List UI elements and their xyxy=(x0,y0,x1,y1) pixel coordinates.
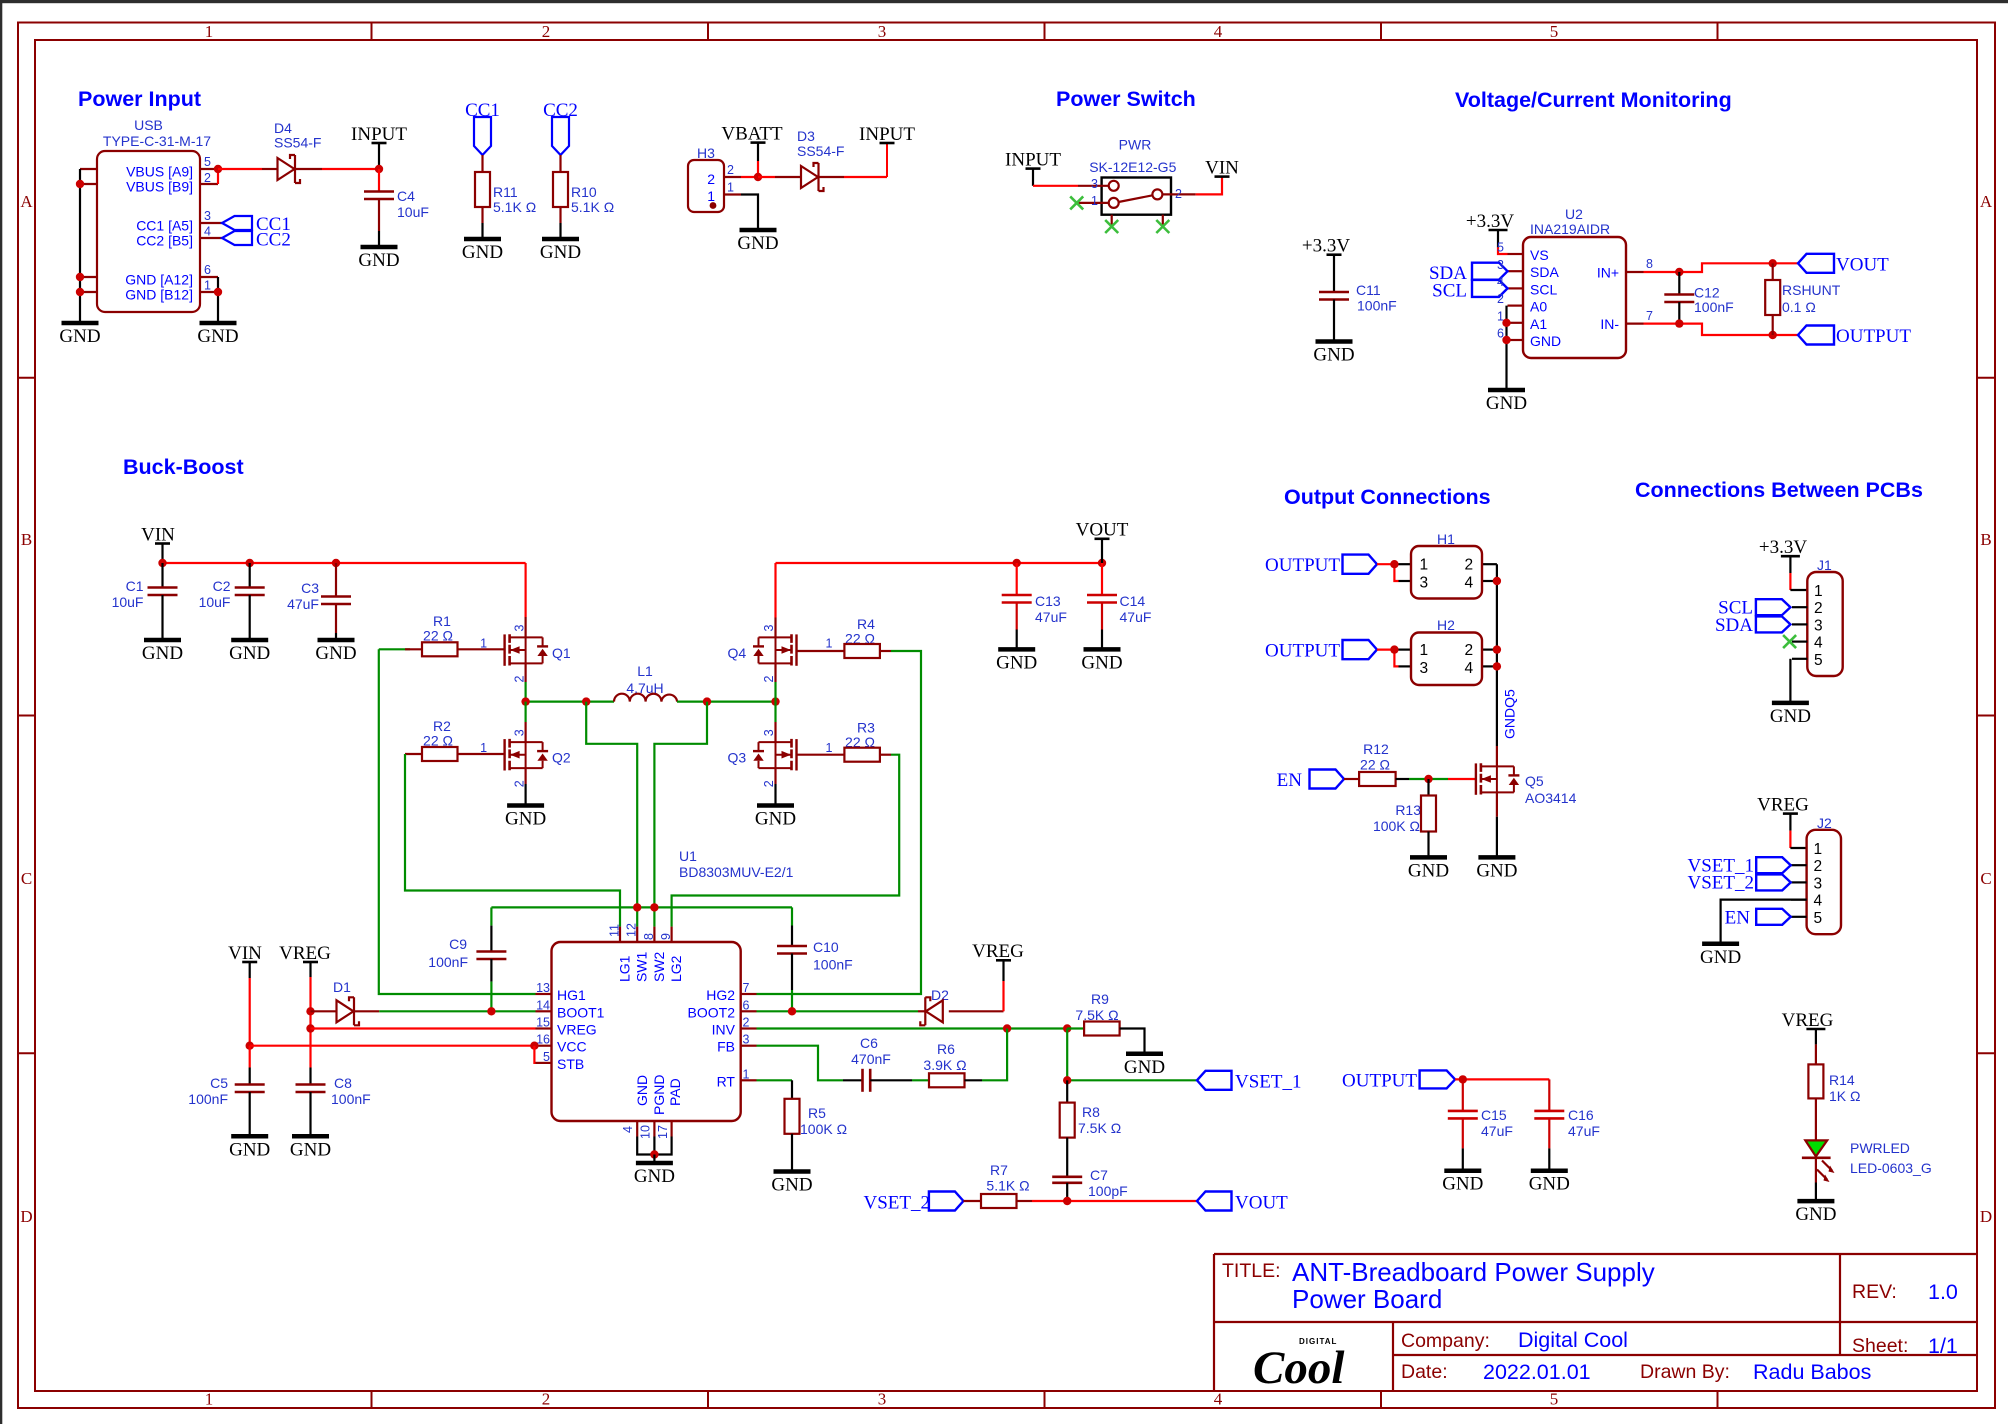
junction dots IN- net xyxy=(1675,319,1777,339)
wire: IN- to OUTPUT net xyxy=(1644,324,1799,335)
svg-text:4: 4 xyxy=(1214,22,1223,41)
title block REV xyxy=(1852,1280,1958,1304)
wire: R3 to U1 LG2 xyxy=(672,755,900,927)
title block Date row xyxy=(1401,1360,1871,1384)
connector J1 body xyxy=(1807,572,1842,676)
svg-text:VIN: VIN xyxy=(1205,157,1239,178)
capacitor C13 labels xyxy=(1035,593,1067,625)
svg-text:VBUS [A9]: VBUS [A9] xyxy=(126,164,193,180)
ground GND (C15) xyxy=(1442,1171,1483,1195)
svg-text:C11: C11 xyxy=(1356,282,1381,298)
svg-text:Output Connections: Output Connections xyxy=(1284,485,1491,509)
netport VSET_2 xyxy=(864,1192,964,1214)
svg-text:VIN: VIN xyxy=(141,524,175,545)
ground GND (C1) xyxy=(142,640,183,664)
svg-text:1: 1 xyxy=(826,637,833,651)
capacitor C4 10uF xyxy=(364,192,394,232)
svg-text:1: 1 xyxy=(204,279,211,293)
netport OUTPUT (H2) xyxy=(1265,640,1377,661)
J2 pin stubs xyxy=(1791,865,1807,917)
svg-text:FB: FB xyxy=(717,1039,735,1055)
wire: VOUT bus to Q4 drain xyxy=(774,563,776,618)
svg-text:Buck-Boost: Buck-Boost xyxy=(123,455,244,479)
svg-text:47uF: 47uF xyxy=(1568,1123,1600,1139)
svg-text:IN+: IN+ xyxy=(1597,265,1619,281)
ground GND (Q2) xyxy=(505,806,546,830)
svg-text:BOOT2: BOOT2 xyxy=(688,1004,736,1020)
connector H1 body xyxy=(1411,546,1482,599)
resistor R2 labels xyxy=(423,718,453,749)
inductor L1 4.7uH xyxy=(614,694,677,702)
netport EN (J2) xyxy=(1725,907,1791,928)
svg-text:3: 3 xyxy=(512,625,526,632)
svg-text:GND: GND xyxy=(505,809,546,830)
capacitor C9 100nF xyxy=(476,907,506,1011)
svg-text:C: C xyxy=(21,869,32,888)
netport VOUT (feedback) xyxy=(1197,1192,1288,1214)
svg-text:3.9K Ω: 3.9K Ω xyxy=(923,1057,966,1073)
svg-text:100nF: 100nF xyxy=(331,1091,371,1107)
svg-text:DIGITAL: DIGITAL xyxy=(1299,1337,1337,1346)
svg-text:15: 15 xyxy=(536,1016,550,1030)
svg-text:4.7uH: 4.7uH xyxy=(626,680,663,696)
svg-text:VSET_2: VSET_2 xyxy=(1688,873,1755,894)
wire: GNDQ5 bus xyxy=(1496,564,1498,746)
svg-text:SDA: SDA xyxy=(1530,264,1559,280)
svg-text:SCL: SCL xyxy=(1530,281,1557,297)
svg-text:3: 3 xyxy=(512,729,526,736)
capacitor C10 100nF xyxy=(777,907,807,1011)
wire: VSET_1 branch xyxy=(1067,1029,1197,1081)
svg-text:2: 2 xyxy=(512,676,526,683)
svg-text:1: 1 xyxy=(480,637,487,651)
USB pin names xyxy=(125,164,193,303)
resistor R12 labels xyxy=(1360,741,1390,773)
svg-text:GND: GND xyxy=(771,1175,812,1196)
U1 bottom pin names xyxy=(634,1075,683,1115)
wire: VCC line to U1 pin16 xyxy=(250,1045,536,1047)
svg-text:C1: C1 xyxy=(126,578,144,594)
wire: CC1 flag to R11 xyxy=(481,155,483,172)
svg-text:SW2: SW2 xyxy=(651,951,667,982)
svg-text:VBUS [B9]: VBUS [B9] xyxy=(126,179,193,195)
svg-text:INPUT: INPUT xyxy=(859,124,915,145)
svg-text:2: 2 xyxy=(743,1016,750,1030)
capacitor C5 100nF xyxy=(235,1046,265,1137)
svg-text:Q5: Q5 xyxy=(1525,773,1544,789)
wire: USB pin1 to GND xyxy=(217,292,219,323)
resistor R11 labels xyxy=(493,184,536,215)
svg-text:4: 4 xyxy=(1214,1390,1223,1409)
svg-text:C13: C13 xyxy=(1035,593,1061,609)
transistor Q2 xyxy=(505,702,548,784)
junction dots bootstrap bus xyxy=(633,903,659,911)
svg-text:8: 8 xyxy=(642,933,656,940)
resistor R8 labels xyxy=(1078,1104,1121,1136)
svg-text:+3.3V: +3.3V xyxy=(1759,537,1807,558)
svg-text:100K Ω: 100K Ω xyxy=(800,1121,847,1137)
svg-text:3: 3 xyxy=(1420,575,1429,592)
svg-text:STB: STB xyxy=(557,1056,584,1072)
netport CC2 (pull-down) xyxy=(543,100,578,155)
svg-text:7.5K Ω: 7.5K Ω xyxy=(1078,1120,1121,1136)
svg-text:D3: D3 xyxy=(797,128,815,144)
svg-text:GND: GND xyxy=(315,643,356,664)
USB right pin stubs xyxy=(200,169,222,292)
svg-text:INA219AIDR: INA219AIDR xyxy=(1530,221,1610,237)
svg-text:10uF: 10uF xyxy=(397,204,429,220)
net flag INPUT (power input) xyxy=(351,124,407,169)
ground GND (C13) xyxy=(996,649,1037,673)
capacitor C6 labels xyxy=(851,1035,891,1067)
svg-text:USB: USB xyxy=(134,117,163,133)
svg-text:1: 1 xyxy=(727,181,734,195)
svg-text:100K Ω: 100K Ω xyxy=(1373,818,1420,834)
U1 top pin stubs xyxy=(620,927,672,942)
USB pin numbers xyxy=(204,155,211,293)
capacitor C11 labels xyxy=(1356,282,1397,314)
svg-text:GND: GND xyxy=(540,242,581,263)
power flag +3.3V (U2 VS) xyxy=(1466,211,1514,254)
svg-text:CC2: CC2 xyxy=(256,230,291,251)
svg-text:D2: D2 xyxy=(931,987,949,1003)
svg-text:RSHUNT: RSHUNT xyxy=(1782,282,1841,298)
ground GND (R5) xyxy=(771,1172,812,1196)
net flag VIN (VCC rail) xyxy=(228,943,262,1046)
ground GND (C3) xyxy=(315,640,356,664)
svg-text:Q2: Q2 xyxy=(552,750,571,766)
svg-text:H2: H2 xyxy=(1437,617,1455,633)
power flag +3.3V (C11) xyxy=(1302,236,1350,293)
svg-text:OUTPUT: OUTPUT xyxy=(1265,555,1340,576)
svg-text:47uF: 47uF xyxy=(1120,609,1152,625)
title block Sheet xyxy=(1852,1334,1958,1358)
svg-text:VOUT: VOUT xyxy=(1836,255,1889,276)
Q2 pin numbers 3 2 xyxy=(512,729,526,787)
svg-text:1: 1 xyxy=(1814,583,1823,600)
junction dots VIN bus xyxy=(158,559,340,567)
resistor R5 100K xyxy=(785,1080,800,1171)
netport VSET_1 xyxy=(1197,1071,1302,1093)
H2 pin numbers xyxy=(1420,642,1474,677)
capacitor C3 labels xyxy=(287,580,319,612)
junction dot VCC rail xyxy=(246,1042,254,1050)
svg-text:1: 1 xyxy=(1814,841,1823,858)
svg-text:4: 4 xyxy=(621,1126,635,1133)
wire: OUTPUT to C15 C16 xyxy=(1455,1078,1549,1080)
ground GND (R9) xyxy=(1124,1054,1165,1078)
svg-text:SK-12E12-G5: SK-12E12-G5 xyxy=(1089,159,1176,175)
junction dot R13 node xyxy=(1424,775,1432,783)
svg-text:6: 6 xyxy=(743,998,750,1012)
ground GND (Q5) xyxy=(1476,857,1517,881)
svg-text:17: 17 xyxy=(656,1125,670,1139)
svg-text:A1: A1 xyxy=(1530,316,1547,332)
net flag VIN (buck input) xyxy=(141,524,175,563)
title block TITLE text xyxy=(1222,1260,1281,1282)
junction dots INV line xyxy=(1003,1024,1072,1032)
resistor R13 100K xyxy=(1421,779,1436,857)
wire: R14 to LED xyxy=(1815,1098,1817,1140)
wire: OUTPUT to H1 pin1 xyxy=(1377,564,1399,581)
capacitor C13 47uF xyxy=(1002,563,1032,649)
resistor R4 labels xyxy=(845,616,875,647)
svg-text:INV: INV xyxy=(712,1022,736,1038)
J1 pin stubs xyxy=(1792,607,1807,659)
resistor RSHUNT 0.1ohm xyxy=(1765,263,1780,335)
ground GND (C5) xyxy=(229,1136,270,1160)
transistor Q3 label xyxy=(728,750,747,766)
junction dot VBATT xyxy=(754,173,762,181)
svg-text:RT: RT xyxy=(717,1073,736,1089)
capacitor C4 labels xyxy=(397,188,429,220)
svg-text:2: 2 xyxy=(727,163,734,177)
wire: RT to R5 xyxy=(757,1079,793,1081)
ground GND (USB pin1) xyxy=(197,323,238,347)
net flag VREG (left rail) xyxy=(279,943,331,1068)
U1 top pin names xyxy=(617,951,685,982)
svg-text:C7: C7 xyxy=(1090,1167,1108,1183)
svg-text:BD8303MUV-E2/1: BD8303MUV-E2/1 xyxy=(679,864,794,880)
capacitor C8 100nF xyxy=(296,1068,326,1137)
svg-text:Date:: Date: xyxy=(1401,1361,1448,1383)
svg-text:5.1K Ω: 5.1K Ω xyxy=(986,1178,1029,1194)
svg-text:GND: GND xyxy=(1124,1057,1165,1078)
wire: U2 A0/A1/GND to ground xyxy=(1505,306,1507,390)
net flag VREG (D2) xyxy=(972,941,1024,1011)
svg-text:A0: A0 xyxy=(1530,299,1547,315)
svg-text:1.0: 1.0 xyxy=(1928,1280,1958,1304)
capacitor C7 100pF xyxy=(1052,1177,1082,1201)
svg-text:14: 14 xyxy=(536,998,550,1012)
svg-text:Q1: Q1 xyxy=(552,645,571,661)
power flag +3.3V (J1) xyxy=(1759,537,1807,590)
junction dots VOUT bus xyxy=(1013,559,1107,567)
capacitor C10 labels xyxy=(813,939,853,973)
svg-text:Q3: Q3 xyxy=(728,750,747,766)
resistor RSHUNT labels xyxy=(1782,282,1841,315)
svg-text:GND: GND xyxy=(229,1139,270,1160)
svg-text:GND [B12]: GND [B12] xyxy=(125,287,193,303)
no-connect X switch bottom pins xyxy=(1105,220,1169,233)
wire: switch pin2 to VIN xyxy=(1196,177,1222,195)
svg-text:C3: C3 xyxy=(301,580,319,596)
wire: IN+ to VOUT net xyxy=(1644,263,1799,272)
svg-text:3: 3 xyxy=(204,209,211,223)
junction dots VREG rail xyxy=(306,1007,314,1033)
wire: D1 cathode to BOOT1 xyxy=(379,1010,535,1012)
no-connect X J1 pin4 xyxy=(1783,635,1796,648)
resistor R2 22ohm xyxy=(405,747,505,761)
wire: R7 to VOUT port xyxy=(1032,1200,1197,1202)
svg-text:INPUT: INPUT xyxy=(351,124,407,145)
capacitor C16 47uF xyxy=(1534,1079,1564,1170)
svg-text:+3.3V: +3.3V xyxy=(1466,211,1514,232)
svg-text:GND: GND xyxy=(290,1139,331,1160)
section title: Voltage/Current Monitoring xyxy=(1455,88,1732,112)
svg-text:C10: C10 xyxy=(813,939,839,955)
svg-text:2: 2 xyxy=(707,171,715,187)
svg-text:6: 6 xyxy=(204,263,211,277)
svg-text:1: 1 xyxy=(743,1067,750,1081)
svg-text:PAD: PAD xyxy=(667,1078,683,1106)
junction dot U1 GND xyxy=(650,1150,658,1158)
svg-text:GND: GND xyxy=(634,1166,675,1187)
capacitor C11 100nF xyxy=(1319,292,1349,300)
svg-text:VREG: VREG xyxy=(279,943,331,964)
svg-text:R14: R14 xyxy=(1829,1072,1855,1088)
svg-text:10uF: 10uF xyxy=(199,594,231,610)
capacitor C2 labels xyxy=(199,578,231,610)
wire: U1 GND stem xyxy=(653,1155,655,1164)
resistor R7 labels xyxy=(986,1162,1029,1194)
svg-text:VREG: VREG xyxy=(1782,1010,1834,1031)
capacitor C1 10uF xyxy=(148,563,178,640)
diode D1 (VREG to BOOT1) xyxy=(311,997,380,1025)
wire: C11 to GND xyxy=(1333,300,1335,342)
wire: D3 cathode to INPUT flag xyxy=(844,143,887,177)
svg-text:GND [A12]: GND [A12] xyxy=(125,272,193,288)
svg-text:3: 3 xyxy=(1497,258,1504,272)
svg-text:GND: GND xyxy=(1770,706,1811,727)
resistor R9 labels xyxy=(1075,991,1118,1023)
svg-text:GND: GND xyxy=(358,250,399,271)
svg-text:EN: EN xyxy=(1725,907,1751,928)
wire: R2 to U1 LG1 xyxy=(405,754,620,927)
svg-text:4: 4 xyxy=(1465,660,1474,677)
svg-text:R5: R5 xyxy=(808,1105,826,1121)
svg-text:AO3414: AO3414 xyxy=(1525,790,1577,806)
LED PWRLED labels xyxy=(1850,1140,1932,1176)
netport OUTPUT (monitor) xyxy=(1798,326,1911,348)
svg-text:VREG: VREG xyxy=(557,1022,597,1038)
capacitor C12 100nF xyxy=(1664,272,1694,324)
svg-text:C14: C14 xyxy=(1120,593,1146,609)
svg-text:HG1: HG1 xyxy=(557,987,586,1003)
junction dots on USB left wire xyxy=(76,180,84,296)
junction dot OUTPUT H1 xyxy=(1390,560,1398,568)
resistor R11 5.1K xyxy=(475,172,490,223)
svg-text:5.1K Ω: 5.1K Ω xyxy=(571,199,614,215)
capacitor C14 47uF xyxy=(1087,563,1117,649)
svg-text:CC1 [A5]: CC1 [A5] xyxy=(136,218,193,234)
svg-text:100pF: 100pF xyxy=(1088,1183,1128,1199)
svg-text:1: 1 xyxy=(205,22,214,41)
U2 pin numbers xyxy=(1497,241,1653,341)
capacitor C1 labels xyxy=(112,578,144,610)
svg-text:GND: GND xyxy=(737,233,778,254)
wire: H3 pin2 to VBATT node xyxy=(741,176,758,178)
svg-text:2022.01.01: 2022.01.01 xyxy=(1483,1360,1591,1384)
svg-text:2: 2 xyxy=(1814,858,1823,875)
resistor R3 labels xyxy=(845,720,875,750)
netport CC1 (USB pin3) xyxy=(222,214,291,235)
svg-text:7: 7 xyxy=(743,981,750,995)
wire: Q3 source to GND xyxy=(774,784,776,806)
ground GND (C11) xyxy=(1313,342,1354,366)
svg-text:3: 3 xyxy=(1420,660,1429,677)
resistor R4 22ohm xyxy=(797,644,891,658)
svg-text:VBATT: VBATT xyxy=(721,123,783,144)
svg-text:D1: D1 xyxy=(333,979,351,995)
Q1 gate pin number 1 xyxy=(480,637,487,651)
svg-text:D: D xyxy=(1980,1207,1992,1226)
svg-text:GND: GND xyxy=(1313,345,1354,366)
svg-text:2: 2 xyxy=(512,780,526,787)
section title: Power Switch xyxy=(1056,87,1196,111)
netport SCL xyxy=(1432,280,1507,302)
wire: LED to GND xyxy=(1815,1183,1817,1202)
svg-text:Cool: Cool xyxy=(1253,1342,1344,1394)
ground GND (C4) xyxy=(358,247,399,271)
resistor R10 5.1K xyxy=(553,172,568,223)
svg-text:R13: R13 xyxy=(1395,802,1421,818)
ground GND (LED) xyxy=(1795,1201,1836,1225)
wire: J2 pin4 to GND xyxy=(1721,900,1807,944)
junction dots GNDQ5 bus xyxy=(1493,577,1501,671)
wire: VBUS pin2 jog xyxy=(217,169,219,184)
wire: R10 to GND xyxy=(559,223,561,239)
Q4 gate pin number 1 xyxy=(826,637,833,651)
svg-text:VIN: VIN xyxy=(228,943,262,964)
junction dot C15 xyxy=(1459,1075,1467,1083)
ground GND (C8) xyxy=(290,1136,331,1160)
svg-text:GND: GND xyxy=(1700,947,1741,968)
svg-text:C5: C5 xyxy=(210,1075,228,1091)
net flag VIN (switch) xyxy=(1205,157,1239,178)
svg-text:IN-: IN- xyxy=(1600,316,1619,332)
connector H2 label xyxy=(1437,617,1455,633)
wire: D4 cathode to INPUT node xyxy=(322,168,379,170)
svg-text:B: B xyxy=(1980,530,1991,549)
svg-text:C16: C16 xyxy=(1568,1107,1594,1123)
net flag VREG (LED) xyxy=(1782,1010,1834,1065)
section title: Power Input xyxy=(78,87,201,111)
svg-text:GND: GND xyxy=(229,643,270,664)
J2 pin numbers xyxy=(1814,841,1823,927)
capacitor C16 labels xyxy=(1568,1107,1600,1139)
wire: CC2 flag to R10 xyxy=(559,155,561,172)
U2 right pin stubs xyxy=(1626,272,1644,324)
Q2 gate pin number 1 xyxy=(480,741,487,755)
svg-text:U1: U1 xyxy=(679,848,697,864)
U1 left pin names xyxy=(557,987,605,1072)
Q1 pin numbers 3 2 xyxy=(512,625,526,683)
svg-text:2: 2 xyxy=(1814,600,1823,617)
netport SCL (J1) xyxy=(1718,598,1790,619)
svg-text:100nF: 100nF xyxy=(428,954,468,970)
capacitor C7 labels xyxy=(1088,1167,1128,1199)
ground GND (C16) xyxy=(1529,1171,1570,1195)
svg-text:1: 1 xyxy=(826,741,833,755)
svg-text:1: 1 xyxy=(1420,642,1429,659)
wire: C6 to R6 xyxy=(912,1079,929,1081)
svg-text:GND: GND xyxy=(1408,860,1449,881)
svg-text:INPUT: INPUT xyxy=(1005,149,1061,170)
svg-text:GND: GND xyxy=(462,242,503,263)
svg-text:100nF: 100nF xyxy=(813,957,853,973)
svg-text:12: 12 xyxy=(625,923,639,937)
wire: VCC to STB pin5 xyxy=(534,1046,535,1063)
wire: GND pin6 jog xyxy=(217,277,219,292)
transistor Q4 xyxy=(753,618,797,683)
svg-text:GND: GND xyxy=(1081,652,1122,673)
svg-text:GND: GND xyxy=(634,1075,650,1106)
wire: INV line xyxy=(757,1027,1068,1029)
capacitor C15 47uF xyxy=(1448,1079,1478,1170)
capacitor C6 470nF xyxy=(843,1069,912,1092)
svg-text:C2: C2 xyxy=(213,578,231,594)
